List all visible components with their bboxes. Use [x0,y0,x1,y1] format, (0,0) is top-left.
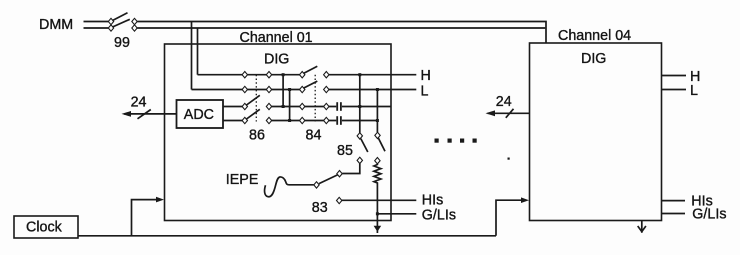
switch 99 pole 2 contacts [108,25,113,31]
wire clock riser to channel 04 [496,200,522,236]
wire switch85 left to IEPE node [342,164,360,174]
arrowhead clock into channel 04 [521,197,529,203]
svg-text:H: H [421,68,431,84]
svg-text:ADC: ADC [184,107,214,123]
switch 84 row L arm [304,81,318,88]
switch 84 linkage dotted [314,75,316,122]
wire HIs row with stub [342,199,417,201]
wire vertical L to switch 85 right [376,90,378,133]
wire vertical H to row3 [282,75,284,107]
wire G/LIs row with stub [377,213,416,215]
junction L x289 [288,88,291,91]
junction G/LIs x377 [376,212,379,215]
switch 86 row 3 arm [247,95,260,105]
switch 86 row 4 arm [247,109,260,119]
svg-text:L: L [421,84,429,100]
node IEPE switch upper contact [337,171,342,177]
svg-text:DIG: DIG [581,51,606,67]
capacitor row 3 plate 1 [336,102,338,111]
svg-text:DIG: DIG [264,52,289,68]
wire H stub channel 04 [662,75,687,77]
wire clock branch to channel 01 [132,200,158,236]
svg-text:DMM: DMM [39,17,73,33]
svg-text:99: 99 [114,35,130,51]
wire row L segment right with stub to L [329,89,416,91]
wire row 3 to box edge [342,106,391,108]
wire DMM bottom lead [84,27,109,29]
wire row 3 between switches [272,106,337,108]
capacitor row 4 plate 2 [340,116,342,125]
bus width slash ADC [138,110,151,119]
wire row 4 ADC output [223,120,242,122]
capacitor row 3 plate 2 [340,102,342,111]
stray dot [508,158,510,160]
ground arrow channel 04 [638,221,646,233]
wire 24 bus arrow channel 04 [488,112,530,114]
arrowhead clock into channel 01 [156,197,164,203]
switch 84 row H arm [304,66,318,73]
node IEPE switch lower contact [314,182,319,188]
svg-text:Clock: Clock [26,220,63,236]
junction H x359 [358,73,361,76]
switch 85 right contacts [375,132,380,138]
ground arrow channel 01 [374,226,382,232]
wire ADC bus arrow 24 [124,113,177,115]
box Clock [14,216,78,238]
wire row 3 ADC output [223,106,242,108]
wire clock bottom bus [78,235,496,237]
svg-text:86: 86 [249,127,265,143]
switch 86 row 3 contacts [242,103,247,109]
wire top bus to Channel 04 [137,22,546,44]
switch 86 linkage dotted [255,75,257,122]
box Channel 04 [530,43,662,221]
switch IEPE arm [319,175,338,184]
svg-text:24: 24 [496,94,512,110]
wire row H segment right with stub to H [329,74,416,76]
wire drop from bottom bus to row H [197,28,199,75]
wire DMM top lead [84,21,109,23]
svg-text:85: 85 [337,143,353,159]
box ADC [177,100,224,128]
arrowhead 24 bus channel 04 [486,110,496,116]
dots ellipsis between channels [435,139,477,143]
capacitor row 4 plate 1 [336,116,338,125]
switch 85 right arm [378,138,385,151]
wire vertical L to row4 [289,90,291,121]
switch 84 row 4 contacts (closed) [300,117,305,123]
wire row 4 between switches [272,120,337,122]
wire HIs stub channel 04 [662,200,686,202]
switch 84 row H contacts [300,72,305,78]
switch 85 left contacts [357,133,362,139]
switch 86 row L contacts (closed) [242,86,247,92]
svg-text:L: L [690,83,698,99]
resistor IEPE pull [374,164,381,184]
switch 99 pole 2 arm [113,19,130,27]
IEPE current source squiggle [265,177,314,197]
svg-text:HIs: HIs [422,193,443,209]
junction L x377 [376,88,379,91]
bus width slash channel 04 [506,109,514,118]
svg-text:Channel 04: Channel 04 [558,28,631,44]
switch 85 left arm [361,139,368,152]
junction row3 x359 [358,105,361,108]
wire row H segment left [198,74,300,76]
switch 83 contact on HIs row [337,197,342,203]
wire G/LIs stub channel 04 [662,213,686,215]
box Channel 01 [165,44,392,221]
svg-text:G/LIs: G/LIs [692,206,726,222]
switch 86 row 4 contacts [242,117,247,123]
svg-text:83: 83 [312,200,328,216]
switch 86 row H contacts (closed) [242,72,247,78]
junction row4 x377 [376,119,379,122]
junction row4 x289 [288,119,291,122]
wire resistor to ground stem [376,184,378,233]
junction row3 x283 [282,105,285,108]
switch 84 row 3 contacts (closed) [300,103,305,109]
svg-text:84: 84 [306,127,322,143]
switch 84 row L contacts [300,86,305,92]
junction H x283 [282,73,285,76]
wire vertical H to switch 85 left [359,75,361,133]
svg-text:G/LIs: G/LIs [422,207,456,223]
arrowhead ADC bus [122,111,132,117]
svg-text:IEPE: IEPE [226,172,259,188]
wire bottom bus to Channel 04 [137,27,545,29]
wire row 4 to junction [342,120,378,122]
wire row L segment left [192,89,300,91]
svg-text:24: 24 [131,95,147,111]
wire drop from top bus to row L [191,22,193,90]
svg-text:Channel 01: Channel 01 [240,30,313,46]
switch 99 pole 1 arm [113,13,128,21]
wire L stub channel 04 [662,89,687,91]
switch 99 pole 1 contacts [108,18,113,24]
